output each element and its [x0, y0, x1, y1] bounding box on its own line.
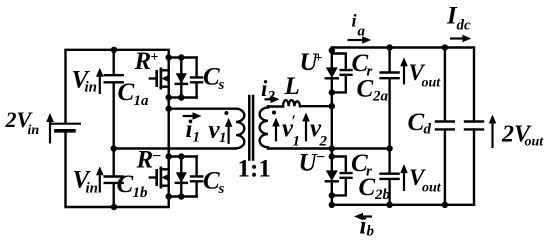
- svg-text:out: out: [525, 135, 545, 150]
- wire primary top: [169, 107, 236, 109]
- svg-text:1a: 1a: [134, 93, 150, 109]
- transistor R- mosfet: [167, 157, 169, 197]
- svg-text:C: C: [203, 64, 220, 91]
- wire left rail bottom: [66, 131, 169, 207]
- svg-text:in: in: [86, 181, 99, 197]
- svg-text:i: i: [186, 116, 193, 143]
- capacitor C1b: [105, 149, 123, 208]
- arrow i1: [183, 115, 194, 117]
- svg-text:i: i: [360, 213, 367, 240]
- svg-text:dc: dc: [457, 18, 472, 34]
- wire upper cell bottom: [169, 96, 197, 98]
- arrow Vout upper: [403, 65, 405, 84]
- arrow Vout lower: [403, 172, 405, 191]
- capacitor Cd: [436, 48, 454, 205]
- capacitor output: [465, 122, 483, 130]
- wire U- to bottom rail: [331, 195, 333, 204]
- transformer secondary winding: [260, 107, 268, 149]
- wire L to node: [300, 105, 332, 107]
- svg-text:R: R: [136, 146, 154, 173]
- capacitor Cs lower: [191, 157, 202, 197]
- svg-text:1: 1: [219, 130, 227, 146]
- wire node to middle rail: [331, 92, 333, 148]
- svg-text:2: 2: [267, 89, 276, 105]
- wire primary bottom: [114, 147, 236, 149]
- node polarity dot primary: [224, 111, 228, 115]
- svg-text:1: 1: [193, 130, 201, 146]
- capacitor C2b: [381, 149, 399, 205]
- capacitor Cs upper: [191, 58, 202, 98]
- svg-text:s: s: [218, 77, 225, 93]
- wire lower cell bottom: [169, 195, 197, 197]
- wire bottom right rail: [332, 204, 474, 206]
- svg-text:2a: 2a: [372, 89, 389, 105]
- arrow 2Vout: [491, 123, 493, 149]
- source 2Vin battery: [52, 123, 80, 125]
- inductor L: [283, 100, 300, 106]
- capacitor Cr upper: [332, 54, 352, 93]
- svg-text:b: b: [367, 224, 375, 240]
- arrow ia: [348, 39, 364, 41]
- svg-text:L: L: [284, 73, 300, 100]
- transformer core: [249, 96, 253, 160]
- wire right rail bottom: [473, 129, 475, 204]
- svg-text:′: ′: [292, 113, 297, 130]
- svg-text:d: d: [424, 122, 432, 138]
- wire bridge midpoint: [167, 98, 169, 157]
- svg-text:C: C: [203, 168, 220, 195]
- capacitor C2a: [381, 48, 399, 149]
- diode of R+: [180, 58, 182, 98]
- diode U+: [331, 48, 333, 68]
- arrow 2Vin: [49, 121, 51, 144]
- arrow v1: [228, 125, 230, 144]
- svg-text:i: i: [352, 10, 357, 30]
- svg-text:out: out: [422, 180, 442, 195]
- svg-text:C: C: [117, 171, 134, 198]
- svg-text:1b: 1b: [133, 185, 149, 201]
- capacitor C1a: [105, 50, 123, 149]
- svg-text:s: s: [218, 181, 225, 197]
- wire secondary top: [268, 105, 283, 107]
- wire middle rail: [268, 147, 390, 149]
- svg-text:2: 2: [319, 133, 328, 149]
- svg-text:C: C: [118, 79, 135, 106]
- arrow Vin lower: [99, 174, 101, 193]
- svg-text:C: C: [357, 76, 374, 103]
- svg-text:+: +: [151, 50, 159, 65]
- svg-text:in: in: [28, 123, 40, 138]
- svg-text:2b: 2b: [374, 187, 391, 203]
- svg-text:in: in: [85, 80, 98, 96]
- svg-text:−: −: [152, 148, 161, 165]
- diode U-: [331, 149, 333, 171]
- transistor R+ mosfet: [167, 58, 169, 98]
- svg-text:1:1: 1:1: [238, 156, 271, 183]
- svg-text:out: out: [422, 76, 442, 91]
- transformer primary winding: [236, 109, 244, 149]
- svg-text:1: 1: [293, 133, 301, 149]
- arrow v2: [305, 120, 307, 142]
- arrow v1prime: [275, 125, 277, 142]
- wire top right rail: [332, 48, 474, 122]
- node polarity dot secondary: [272, 111, 276, 115]
- wire upper cell top: [169, 56, 197, 58]
- svg-text:+: +: [315, 51, 323, 66]
- svg-text:C: C: [408, 109, 425, 136]
- wire left rail top: [66, 50, 169, 123]
- svg-text:a: a: [358, 24, 366, 40]
- arrow i2: [265, 98, 273, 100]
- diode of R-: [180, 157, 182, 197]
- capacitor Cr lower: [332, 157, 352, 196]
- svg-text:−: −: [316, 149, 325, 166]
- arrows: [46, 35, 496, 221]
- svg-text:C: C: [359, 174, 376, 201]
- arrow Vin upper: [99, 75, 101, 94]
- svg-text:R: R: [134, 48, 152, 75]
- arrow ib: [362, 215, 372, 217]
- arrow Idc: [450, 37, 464, 39]
- wire lower cell top: [169, 155, 197, 157]
